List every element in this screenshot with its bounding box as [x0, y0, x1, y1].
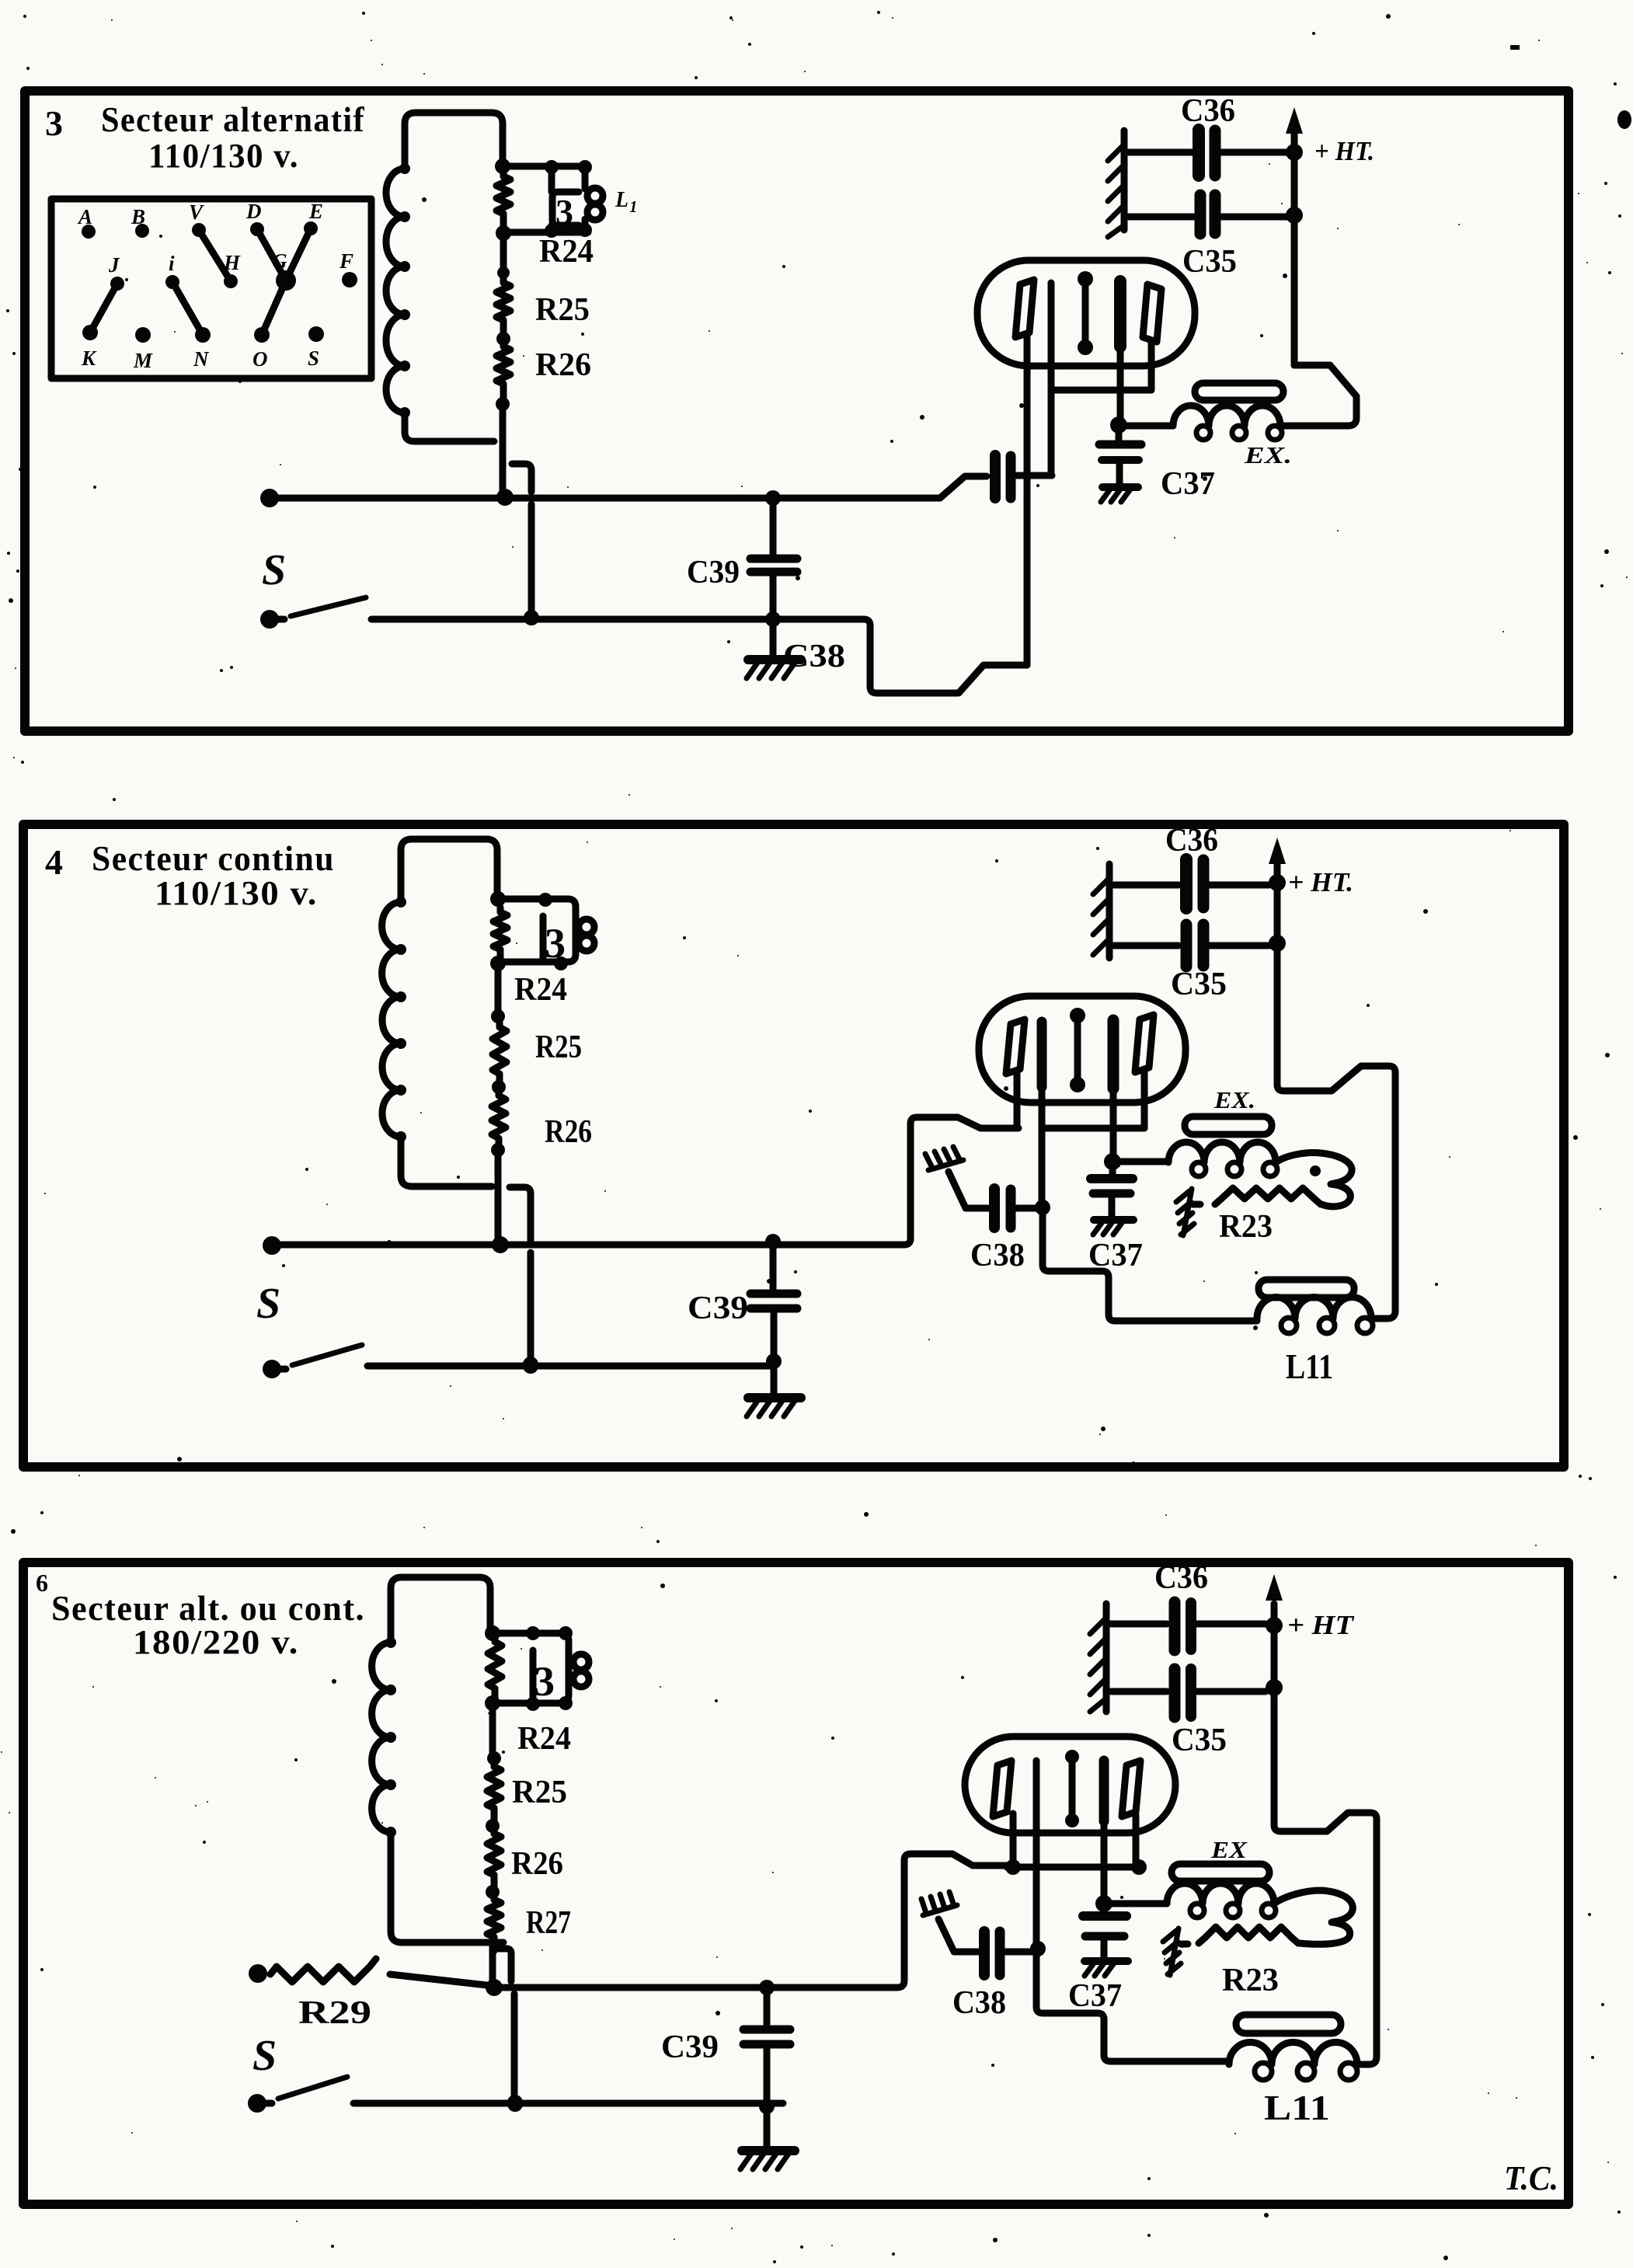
- terminal F: [339, 249, 357, 287]
- svg-text:L11: L11: [1264, 2088, 1330, 2127]
- wire R24-R25 p4: [491, 963, 505, 1023]
- transformer primary loop top wire p6: [391, 1577, 490, 1643]
- svg-text:K: K: [81, 347, 97, 370]
- plug L1 outline p6: [493, 1626, 573, 1711]
- svg-text:E: E: [308, 200, 323, 223]
- svg-text:R25: R25: [535, 292, 590, 328]
- label S p6: [252, 2032, 277, 2080]
- svg-text:S: S: [308, 347, 319, 370]
- label C37 p6: [1068, 1978, 1122, 2014]
- tube right plate p4: [1135, 1015, 1154, 1072]
- strap J-K: [90, 284, 117, 333]
- panel 6 title "6 Secteur alt. ou cont. 180/220 v.": [36, 1569, 365, 1661]
- terminal G: [272, 249, 296, 291]
- svg-text:R24: R24: [517, 1721, 571, 1757]
- svg-text:R29: R29: [298, 1995, 371, 2031]
- svg-text:J: J: [108, 253, 120, 277]
- +HT arrow p4: [1269, 838, 1286, 952]
- label C36: [1181, 93, 1235, 129]
- svg-text:3: 3: [45, 103, 64, 143]
- svg-text:R26: R26: [511, 1846, 563, 1882]
- svg-text:O: O: [252, 347, 268, 371]
- svg-text:C37: C37: [1088, 1238, 1143, 1273]
- tube left plate lead down: [1024, 337, 1031, 665]
- strap D-G: [257, 229, 286, 280]
- label C39 p6: [661, 2029, 719, 2065]
- +HT riser and arrow: [1286, 107, 1303, 365]
- svg-text:EX.: EX.: [1244, 441, 1292, 469]
- svg-text:R25: R25: [535, 1029, 582, 1065]
- capacitor C35 p4: [1114, 925, 1269, 967]
- capacitor C39 p6: [743, 1989, 790, 2106]
- chassis wall C35 C36 p4: [1093, 864, 1109, 958]
- label +HT. p4: [1288, 867, 1353, 897]
- label R26 p6: [511, 1846, 563, 1882]
- capacitor C36 p6: [1111, 1602, 1266, 1650]
- capacitor C36: [1128, 130, 1289, 176]
- switch S terminal p4: [263, 1360, 286, 1378]
- svg-text:Secteur continu: Secteur continu: [92, 838, 335, 878]
- capacitor C38: [940, 455, 1052, 498]
- svg-text:Secteur alternatif: Secteur alternatif: [101, 99, 365, 139]
- svg-text:110/130 v.: 110/130 v.: [155, 874, 318, 912]
- label C35 p6: [1172, 1723, 1227, 1758]
- svg-text:V: V: [189, 200, 204, 224]
- resistor R26 p6: [486, 1829, 501, 1899]
- terminal B: [131, 205, 149, 238]
- label C38: [783, 639, 845, 674]
- transformer primary loop top wire p4: [401, 839, 497, 902]
- svg-text:180/220 v.: 180/220 v.: [133, 1623, 299, 1661]
- strap V-H: [199, 230, 231, 281]
- svg-text:F: F: [339, 249, 353, 273]
- transformer primary winding p4: [382, 897, 492, 1186]
- resistor R29 p6: [249, 1959, 494, 1986]
- plug L1 pin piece: [585, 167, 603, 230]
- ground below C39 p4: [747, 1361, 801, 1416]
- panel 6 frame: [23, 1563, 1569, 2204]
- switch output wire p4: [367, 1353, 782, 1374]
- panel 4 title "4 Secteur continu 110/130 v.": [45, 838, 335, 912]
- terminal H: [223, 251, 241, 288]
- svg-text:C36: C36: [1154, 1560, 1208, 1596]
- svg-text:C37: C37: [1068, 1978, 1122, 2014]
- svg-text:C37: C37: [1161, 466, 1215, 502]
- label EX.: [1244, 441, 1292, 469]
- smoothing choke L11 p6: [1229, 2042, 1360, 2080]
- EX core bar p4: [1185, 1117, 1272, 1134]
- EX core bar p6: [1172, 1864, 1269, 1881]
- label R26: [535, 347, 591, 383]
- svg-text:C39: C39: [688, 1291, 748, 1326]
- label C35: [1182, 244, 1237, 280]
- svg-text:R26: R26: [545, 1114, 592, 1150]
- plug L1 pin piece p4: [579, 919, 594, 951]
- resistor R24 p6: [485, 1637, 502, 1711]
- svg-text:3: 3: [545, 920, 566, 967]
- svg-text:C36: C36: [1181, 93, 1235, 129]
- svg-text:L11: L11: [1286, 1347, 1333, 1386]
- svg-text:Secteur alt. ou cont.: Secteur alt. ou cont.: [51, 1588, 365, 1628]
- label S p4: [256, 1280, 280, 1328]
- svg-text:C38: C38: [970, 1238, 1025, 1273]
- terminal A: [77, 205, 96, 239]
- resistor R25: [496, 278, 510, 346]
- switch blade p6: [278, 2077, 347, 2099]
- label R25 p6: [512, 1775, 567, 1810]
- label +HT p6: [1287, 1610, 1355, 1640]
- svg-text:D: D: [245, 200, 262, 223]
- svg-text:S: S: [256, 1280, 280, 1328]
- label C36 p4: [1165, 823, 1218, 859]
- svg-text:L: L: [615, 188, 628, 212]
- tube right plate lead p6: [1133, 1815, 1140, 1867]
- svg-text:i: i: [169, 252, 175, 275]
- label L11 p4: [1286, 1347, 1333, 1386]
- plug L1 socket piece: [552, 167, 579, 232]
- excitation field coil EX: [1127, 406, 1290, 440]
- terminal S: [308, 326, 324, 370]
- label R25: [535, 292, 590, 328]
- capacitor C39: [750, 498, 797, 627]
- label R24: [539, 234, 594, 270]
- wire chain to bus p6: [489, 1946, 496, 1984]
- plug pin piece p6: [573, 1654, 589, 1687]
- resistor R26 p4: [491, 1091, 506, 1157]
- tube left plate lead p6: [1010, 1813, 1017, 1867]
- label C38 p6: [952, 1985, 1006, 2021]
- wire staircase to tube cathode: [864, 619, 1027, 693]
- tube right plate lead p4: [1046, 1069, 1144, 1128]
- label R23 p4: [1219, 1209, 1273, 1245]
- tap hook wire p6: [497, 1949, 523, 2110]
- svg-text:EX: EX: [1210, 1836, 1248, 1863]
- resistor R23 and field outline p4: [1193, 1153, 1352, 1207]
- fuse/plug L1 top wire: [503, 160, 592, 174]
- label C37 p4: [1088, 1238, 1143, 1273]
- label EX. p4: [1213, 1086, 1255, 1113]
- svg-text:C38: C38: [952, 1985, 1006, 2021]
- tube filament pin p6: [1095, 1761, 1112, 1912]
- switch S blade: [291, 597, 366, 616]
- tube center electrode: [1078, 271, 1093, 355]
- terminal J: [108, 253, 124, 291]
- wire chain to bus p4: [495, 1150, 502, 1242]
- mains bus wire p4: [263, 1117, 1018, 1255]
- svg-text:R24: R24: [514, 972, 567, 1008]
- L11 core bar p4: [1259, 1280, 1354, 1298]
- svg-text:T.C.: T.C.: [1504, 2159, 1558, 2197]
- svg-text:+ HT.: + HT.: [1288, 867, 1353, 897]
- tube anode plate right: [1143, 284, 1161, 342]
- node chain top p4: [490, 891, 506, 907]
- resistor R24 p4: [490, 908, 507, 971]
- ground below C39: [747, 619, 801, 678]
- svg-text:M: M: [133, 349, 153, 372]
- transformer primary winding p6: [372, 1637, 503, 1942]
- svg-text:S: S: [252, 2032, 277, 2080]
- capacitor C36 p4: [1114, 859, 1269, 908]
- label C37: [1161, 466, 1215, 502]
- chassis hatch at R23 left p6: [1163, 1928, 1181, 1975]
- tube cathode lead to C38 and L11 p6: [1030, 1761, 1229, 2061]
- svg-text:S: S: [262, 546, 286, 594]
- switch output wire: [371, 616, 864, 623]
- plug socket piece p6: [533, 1650, 555, 1705]
- tube cathode lead to C38 and L11 p4: [1035, 1022, 1257, 1321]
- label L1: [615, 188, 638, 216]
- resistor R25 p6: [486, 1762, 501, 1833]
- svg-text:C39: C39: [661, 2029, 719, 2065]
- label C39: [687, 555, 740, 591]
- rectifier tube envelope p4: [979, 996, 1186, 1103]
- svg-text:3: 3: [534, 1658, 555, 1705]
- svg-text:+ HT: + HT: [1287, 1610, 1355, 1640]
- wire R24 to R25: [497, 233, 510, 279]
- capacitor C37: [1099, 425, 1141, 485]
- label R29 p6: [298, 1995, 371, 2031]
- switch terminal p6: [248, 2094, 272, 2113]
- tube left plate p4: [1006, 1019, 1025, 1074]
- node R24/L1 bottom: [496, 225, 511, 241]
- resistor R24: [496, 172, 510, 233]
- svg-text:R26: R26: [535, 347, 591, 383]
- transformer primary winding (left): [386, 163, 494, 441]
- tube left plate p6: [993, 1761, 1011, 1817]
- node top of resistor chain: [495, 159, 510, 174]
- panel 3 title "3 Secteur alternatif 110/130 v.": [45, 99, 365, 175]
- svg-text:C36: C36: [1165, 823, 1218, 859]
- wire L11 to +HT riser p6: [1274, 1604, 1377, 2064]
- mains bus wire: [260, 489, 940, 507]
- connector panel box (voltage selector plug board): [51, 199, 371, 378]
- wire L11 to +HT riser p4: [1277, 848, 1395, 1319]
- chassis wall for C35 C36: [1108, 131, 1124, 237]
- ground below C37: [1101, 487, 1138, 502]
- svg-text:C38: C38: [783, 639, 845, 674]
- svg-text:R27: R27: [526, 1905, 571, 1941]
- tube grid lead to C38: [1051, 283, 1151, 475]
- label R27 p6: [526, 1905, 571, 1941]
- plug L1 outline p4: [498, 893, 576, 970]
- capacitor C37 p4: [1091, 1162, 1133, 1218]
- svg-text:110/130 v.: 110/130 v.: [148, 137, 299, 175]
- capacitor C38 p6: [938, 1919, 1033, 1975]
- chassis hatch at R23 left p4: [1176, 1189, 1194, 1235]
- resistor R26: [496, 342, 510, 411]
- wire EX to +HT riser: [1290, 365, 1356, 426]
- EX core bar: [1195, 383, 1283, 400]
- wire chain bottom to bus: [500, 404, 507, 496]
- wire R24-R25 p6: [487, 1703, 501, 1765]
- ground below C37 p4: [1093, 1220, 1133, 1235]
- capacitor C37 p6: [1083, 1904, 1126, 1957]
- tube center electrode p6: [1065, 1750, 1079, 1827]
- tube left plate lead p4: [1014, 1071, 1021, 1128]
- panel 3 frame: [25, 91, 1569, 731]
- antenna ground symbol C38 p4: [925, 1147, 963, 1170]
- svg-text:3: 3: [555, 192, 573, 232]
- tube filament pin p4: [1104, 1020, 1121, 1170]
- L11 core bar p6: [1236, 2015, 1341, 2033]
- ground below C39 p6: [740, 2107, 795, 2169]
- resistor R25 p4: [492, 1023, 507, 1094]
- label R23 p6: [1222, 1963, 1279, 1998]
- strap G-O: [262, 280, 286, 335]
- ink blob margin: [1510, 45, 1631, 129]
- transformer primary loop top wire: [405, 113, 503, 169]
- capacitor C35 p6: [1111, 1669, 1266, 1717]
- label R25 p4: [535, 1029, 582, 1065]
- tube bottom bar p6: [1005, 1859, 1147, 1875]
- svg-text:R23: R23: [1219, 1209, 1273, 1245]
- tube filament pin (heavy): [1110, 281, 1127, 434]
- svg-text:R23: R23: [1222, 1963, 1279, 1998]
- strap I-N: [172, 282, 203, 335]
- capacitor C35: [1128, 195, 1289, 234]
- label C38 p4: [970, 1238, 1025, 1273]
- ground below C37 p6: [1085, 1961, 1128, 1976]
- resistor R27 p6: [487, 1895, 501, 1951]
- label S: [262, 546, 286, 594]
- terminal E: [304, 200, 323, 235]
- svg-text:C35: C35: [1172, 1723, 1227, 1758]
- label C39 p4: [688, 1291, 748, 1326]
- capacitor C38 p4: [949, 1172, 1037, 1228]
- antenna ground symbol C38 p6: [921, 1892, 957, 1915]
- svg-text:+ HT.: + HT.: [1314, 136, 1374, 166]
- tube center electrode p4: [1070, 1008, 1085, 1092]
- tap hook wire to switch line: [512, 464, 539, 625]
- plug L1 socket piece p4: [543, 916, 566, 967]
- capacitor C39 p4: [750, 1243, 797, 1358]
- switch output wire p6: [353, 2096, 783, 2114]
- label R24 p6: [517, 1721, 571, 1757]
- tap hook wire p4: [510, 1187, 538, 1372]
- label C35 p4: [1171, 967, 1227, 1002]
- terminal I: [165, 252, 179, 289]
- svg-text:6: 6: [36, 1569, 50, 1597]
- label EX p6: [1210, 1836, 1248, 1863]
- label +HT.: [1314, 136, 1374, 166]
- rectifier tube envelope p6: [965, 1737, 1175, 1833]
- label L11 p6: [1264, 2088, 1330, 2127]
- svg-text:C35: C35: [1182, 244, 1237, 280]
- label C36 p6: [1154, 1560, 1208, 1596]
- svg-text:EX.: EX.: [1213, 1086, 1255, 1113]
- panel 4 frame: [23, 824, 1564, 1467]
- terminal V: [189, 200, 206, 237]
- +HT arrow p6: [1266, 1574, 1283, 1696]
- switch S terminal top: [260, 610, 284, 629]
- mains bus wire p6: [486, 1854, 1007, 1996]
- svg-text:C35: C35: [1171, 967, 1227, 1002]
- label R24 p4: [514, 972, 567, 1008]
- strap E-G: [286, 228, 311, 280]
- terminal K: [81, 325, 98, 370]
- excitation coil EX p4: [1121, 1142, 1277, 1176]
- switch blade p4: [292, 1345, 362, 1365]
- smoothing choke L11 p4: [1257, 1297, 1375, 1333]
- svg-text:C39: C39: [687, 555, 740, 591]
- chassis wall C35 C36 p6: [1090, 1604, 1106, 1712]
- svg-text:N: N: [193, 347, 210, 371]
- excitation coil EX p6: [1112, 1883, 1276, 1918]
- tube anode plate left: [1015, 280, 1034, 337]
- label R26 p4: [545, 1114, 592, 1150]
- tube right plate p6: [1122, 1761, 1140, 1817]
- svg-text:R25: R25: [512, 1775, 567, 1810]
- signature T.C.: [1504, 2159, 1558, 2197]
- terminal O: [252, 327, 270, 371]
- svg-text:4: 4: [45, 842, 64, 882]
- svg-text:1: 1: [629, 197, 638, 216]
- svg-text:R24: R24: [539, 234, 594, 270]
- terminal D: [245, 200, 264, 236]
- terminal N: [193, 327, 211, 371]
- node chain top p6: [485, 1625, 500, 1641]
- rectifier tube envelope: [977, 260, 1195, 366]
- terminal M: [133, 327, 153, 372]
- resistor R23 and field outline p6: [1181, 1890, 1353, 1944]
- fuse/plug L1 bottom wire: [503, 223, 592, 238]
